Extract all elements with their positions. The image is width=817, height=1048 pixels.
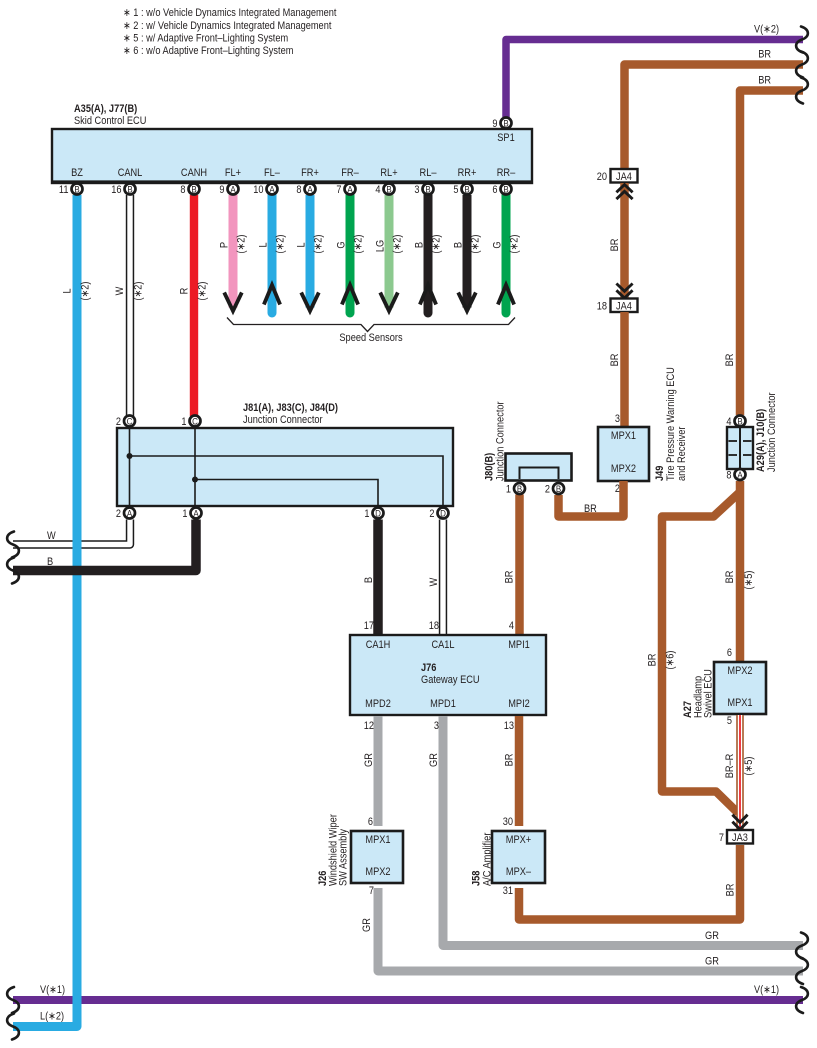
A/C amplifier J58 title [471,832,494,886]
svg-text:B: B [737,416,742,427]
ECU U1 Skid Control ECU body [52,129,532,183]
svg-text:7: 7 [336,184,341,196]
svg-text:4: 4 [375,184,380,196]
wire BR(*5) brown from A29 pin 8A to A27 pin 6 [724,481,755,661]
break symbol left L(*2) [7,1014,19,1040]
svg-text:GR: GR [428,753,440,767]
svg-text:A: A [347,184,353,195]
svg-text:C: C [192,416,198,427]
break symbol left B [7,558,19,584]
wire BR brown from J49 pin 2 to J80 pin 2B [559,481,624,517]
svg-text:5: 5 [727,715,732,727]
wire FL- L(*2) blue to speed sensor [258,195,287,313]
svg-text:(∗2): (∗2) [431,235,443,254]
svg-text:18: 18 [597,301,607,313]
pin 2 D of J81 [429,508,448,521]
svg-text:J76: J76 [421,662,436,674]
wire RL+ LG(*2) light green to speed sensor [375,195,404,311]
pin 9 B SP1 of ECU [492,118,511,131]
headlamp swivel ECU A27 body [714,662,766,714]
svg-text:W: W [47,530,56,542]
svg-text:30: 30 [503,816,513,828]
J81 junction dot node 1 [192,477,198,483]
windshield wiper SW assembly J26 body [351,831,403,883]
svg-text:BR: BR [504,571,516,584]
pin 4 B of A29 [726,416,745,429]
svg-text:4: 4 [509,620,514,632]
break symbol left V(*1) [7,987,19,1013]
svg-text:MPX1: MPX1 [611,430,636,442]
wire BZ L(*2) blue main from pin 11B to bottom-left break [13,195,92,1027]
wire GR gray from J76 MPD1 to right break [428,716,803,946]
svg-text:BR: BR [609,354,621,367]
svg-text:GR: GR [705,930,719,942]
break symbol right V(*1) [796,987,808,1013]
svg-text:MPX1: MPX1 [365,834,390,846]
svg-text:A: A [737,470,743,481]
svg-text:B: B [74,184,79,195]
svg-text:BR: BR [609,239,621,252]
svg-text:7: 7 [369,885,374,897]
svg-text:L: L [62,288,74,293]
J76 labels [365,639,530,710]
svg-text:BR: BR [758,49,771,61]
junction connector J80(B) title [484,401,507,481]
svg-text:(∗6): (∗6) [665,651,677,670]
svg-text:5: 5 [453,184,458,196]
svg-text:FL–: FL– [264,167,281,179]
break symbol right BR lower [796,78,808,104]
svg-text:L(∗2): L(∗2) [40,1011,64,1023]
svg-text:2: 2 [545,484,550,496]
svg-text:7: 7 [719,832,724,844]
svg-text:L: L [258,242,270,247]
svg-text:D: D [375,508,381,519]
junction connector J81(A), J83(C), J84(D) title [243,402,338,426]
svg-text:RL–: RL– [420,167,438,179]
wire GR gray from J26 pin 7 to right break [361,888,803,971]
gateway ECU J76 body [350,635,546,715]
svg-text:(∗5): (∗5) [743,571,755,590]
svg-text:8: 8 [180,184,185,196]
svg-text:LG: LG [375,240,387,252]
wire FR+ L(*2) blue to speed sensor [296,195,325,311]
break symbol right GR lower [796,958,808,984]
svg-text:BR: BR [584,503,597,515]
connector JA3 pin 7 [719,830,753,844]
svg-text:(∗2): (∗2) [470,235,482,254]
svg-text:W: W [428,577,440,586]
break symbol right BR upper [796,52,808,78]
svg-text:RR–: RR– [497,167,516,179]
wire CANL W(*2) white from pin 16B to J81 pin 2C [114,195,145,416]
svg-text:2: 2 [429,508,434,520]
svg-text:B: B [191,184,196,195]
wire BR brown from J76 MPI2 to J58 pin 30 [504,716,520,826]
pin 11 B of ECU [59,184,83,197]
pin 7 A of ECU [336,184,355,197]
svg-text:L: L [296,242,308,247]
svg-text:CANH: CANH [181,167,207,179]
tire pressure warning ECU J49 body [598,427,649,481]
windshield wiper SW assembly J26 title [317,814,350,886]
wire RL- B(*2) black to speed sensor [414,195,443,313]
svg-text:MPX2: MPX2 [727,665,752,677]
svg-text:BR: BR [724,571,736,584]
wire BR brown from right break to A29 pin 4B [724,75,803,416]
svg-text:MPX2: MPX2 [611,463,636,475]
pin 1 C of J81 [181,416,200,429]
svg-text:BR: BR [758,75,771,87]
svg-text:B: B [517,484,522,495]
J81 internal bus 2C-2A-2D [130,428,444,506]
pin 8 B of ECU [180,184,199,197]
wire CANH R(*2) red from pin 8B to J81 pin 1C [179,195,209,416]
svg-text:JA3: JA3 [732,832,748,844]
svg-text:J81(A), J83(C), J84(D): J81(A), J83(C), J84(D) [243,402,338,414]
J76 pin numbers 17 18 4 [364,620,514,632]
svg-text:31: 31 [503,885,513,897]
svg-text:BR: BR [724,354,736,367]
svg-text:A: A [230,184,236,195]
svg-text:B: B [464,184,469,195]
wire GR gray from J76 MPD2 to J26 pin 6 [363,716,378,826]
svg-text:W: W [114,286,126,295]
break symbol right V(*2) [796,27,808,53]
svg-text:MPD2: MPD2 [365,698,391,710]
wire RR+ B(*2) black to speed sensor [453,195,482,311]
svg-text:MPX2: MPX2 [365,866,390,878]
svg-text:11: 11 [59,184,69,196]
svg-text:6: 6 [492,184,497,196]
svg-text:9: 9 [219,184,224,196]
svg-text:RL+: RL+ [380,167,397,179]
wire BR brown from right break to JA4 pin 20 [625,49,804,170]
break symbol left W [7,532,19,558]
svg-text:(∗5): (∗5) [743,757,755,776]
svg-text:3: 3 [414,184,419,196]
pin 8 A of ECU [296,184,315,197]
svg-text:A: A [269,184,275,195]
svg-text:MPX+: MPX+ [506,834,531,846]
pin 1 B of J80 [506,483,525,496]
svg-text:CANL: CANL [118,167,143,179]
junction connector A29(A), J10(B) body [727,427,753,469]
svg-text:(∗2): (∗2) [236,235,248,254]
svg-text:9: 9 [492,118,497,130]
svg-text:RR+: RR+ [458,167,477,179]
svg-text:Gateway ECU: Gateway ECU [421,674,480,686]
pin 8 A of A29 [726,469,745,482]
svg-text:Junction Connector: Junction Connector [766,392,778,472]
A/C amplifier J58 body [492,831,545,883]
svg-text:B: B [503,118,508,129]
svg-text:BR–R: BR–R [724,754,736,779]
svg-text:A: A [307,184,313,195]
wire V(*1) purple bottom horizontal [13,984,803,1000]
svg-text:SP1: SP1 [497,132,515,144]
svg-text:17: 17 [364,620,374,632]
connector JA4 pin 18 [597,299,638,313]
svg-text:BR: BR [504,754,516,767]
svg-text:FR+: FR+ [301,167,319,179]
svg-text:B: B [386,184,391,195]
svg-text:A: A [127,508,133,519]
ECU pin name labels BZ CANL CANH FL+ FL- FR+ FR- RL+ RL- RR+ RR- SP1 [71,132,516,179]
pin 9 A of ECU [219,184,238,197]
svg-text:B: B [127,184,132,195]
wire BR brown from J58 pin 31 to JA3 pin 7 [519,845,740,920]
pin 2 C of J81 [116,416,135,429]
arrow double chevron up into JA4 20 [616,185,632,200]
svg-text:B: B [556,484,561,495]
J81 junction dot node 2 [127,453,133,459]
svg-text:6: 6 [727,647,732,659]
svg-text:18: 18 [429,620,439,632]
break symbol right GR upper [796,933,808,959]
svg-text:Speed Sensors: Speed Sensors [339,332,403,344]
svg-text:G: G [492,241,504,248]
svg-text:∗ 5 : w/ Adaptive Front–Lighti: ∗ 5 : w/ Adaptive Front–Lighting System [123,33,288,45]
wire FR- G(*2) green to speed sensor [336,195,365,313]
svg-text:6: 6 [368,816,373,828]
pin 3 B of ECU [414,184,433,197]
svg-text:(∗2): (∗2) [133,282,145,301]
wire BR brown from JA4 18 to J49 MPX1 pin 3 [609,312,625,426]
svg-text:MPD1: MPD1 [430,698,456,710]
ECU U1 title A35(A), J77(B) Skid Control ECU [74,103,146,127]
wire BR brown between JA4 connectors [609,183,625,298]
svg-text:B: B [414,242,426,248]
svg-text:(∗2): (∗2) [275,235,287,254]
svg-text:B: B [425,184,430,195]
svg-text:B: B [453,242,465,248]
brace Speed Sensors [227,318,515,345]
svg-text:1: 1 [506,484,511,496]
pin 5 B of ECU [453,184,472,197]
wire W white from J81 pin 2D to J76 CA1L [428,520,443,635]
wire B black from J81 pin 1A to left break [13,520,196,571]
arrow double chevron down into JA3 [732,815,747,830]
svg-text:C: C [127,416,133,427]
svg-text:2: 2 [615,483,620,495]
pin 4 B of ECU [375,184,394,197]
pin 1 D of J81 [364,508,383,521]
wire BR-R(*5) striped from A27 pin 5 to JA3 pin 7 [724,715,755,830]
svg-text:20: 20 [597,171,607,183]
wire BR(*6) brown branch from A29 pin 8A to JA3 pin 7 [647,492,741,813]
svg-text:12: 12 [364,720,374,732]
svg-text:∗ 6 : w/o Adaptive Front–Light: ∗ 6 : w/o Adaptive Front–Lighting System [123,45,293,57]
wire RR- G(*2) green to speed sensor [492,195,521,313]
arrow double chevron down into JA4 18 [616,284,632,299]
svg-text:A35(A), J77(B): A35(A), J77(B) [74,103,137,115]
svg-text:G: G [336,241,348,248]
wire B black from J81 pin 1D to J76 CA1H [363,520,378,635]
svg-text:MPX–: MPX– [506,866,532,878]
svg-text:B: B [363,577,375,583]
J76 pin numbers 12 3 13 [364,720,514,732]
svg-text:MPI2: MPI2 [508,698,530,710]
svg-text:(∗2): (∗2) [313,235,325,254]
svg-text:4: 4 [726,416,731,428]
notes legend [123,7,337,57]
svg-text:V(∗2): V(∗2) [754,24,779,36]
svg-text:(∗2): (∗2) [509,235,521,254]
svg-text:B: B [47,556,53,568]
J81 internal bus 1C-1A-1D [195,428,378,506]
svg-text:BR: BR [647,654,659,667]
wire FL+ P(*2) pink to speed sensor [219,195,248,311]
svg-text:10: 10 [253,184,263,196]
junction connector A29(A), J10(B) title [755,392,778,472]
svg-text:P: P [219,242,231,248]
svg-text:3: 3 [615,413,620,425]
svg-text:∗ 2 : w/ Vehicle Dynamics Inte: ∗ 2 : w/ Vehicle Dynamics Integrated Man… [123,20,331,32]
svg-text:1: 1 [182,508,187,520]
pin 10 A of ECU [253,184,277,197]
pin 16 B of ECU [111,184,135,197]
svg-text:SW Assembly: SW Assembly [338,829,350,886]
svg-text:16: 16 [111,184,121,196]
svg-text:MPX1: MPX1 [727,697,752,709]
svg-text:(∗2): (∗2) [353,235,365,254]
pin 6 B of ECU [492,184,511,197]
svg-text:2: 2 [116,416,121,428]
svg-text:1: 1 [364,508,369,520]
svg-text:CA1H: CA1H [366,639,391,651]
connector JA4 pin 20 [597,169,638,183]
junction connector J80(B) body [506,454,572,481]
svg-text:FR–: FR– [341,167,359,179]
svg-text:1: 1 [181,416,186,428]
svg-text:GR: GR [361,918,373,932]
svg-text:(∗2): (∗2) [392,235,404,254]
svg-text:8: 8 [726,470,731,482]
svg-text:FL+: FL+ [225,167,241,179]
svg-text:GR: GR [363,753,375,767]
svg-text:GR: GR [705,956,719,968]
svg-text:R: R [179,288,191,295]
svg-text:and Receiver: and Receiver [676,426,688,481]
wire V(*2) purple from right break to ECU pin 9B SP1 [506,24,803,118]
svg-text:∗ 1 : w/o Vehicle Dynamics Int: ∗ 1 : w/o Vehicle Dynamics Integrated Ma… [123,7,337,19]
pin 2 B of J80 [545,483,564,496]
svg-text:JA4: JA4 [616,301,632,313]
svg-text:8: 8 [296,184,301,196]
svg-text:V(∗1): V(∗1) [40,984,65,996]
svg-text:CA1L: CA1L [431,639,454,651]
pin 1 A of J81 [182,508,201,521]
headlamp swivel ECU A27 title [682,669,715,718]
svg-text:Skid Control ECU: Skid Control ECU [74,115,146,127]
svg-text:BR: BR [725,884,737,897]
svg-text:(∗2): (∗2) [80,282,92,301]
svg-text:Junction Connector: Junction Connector [243,414,323,426]
tire pressure warning ECU J49 title [654,367,688,481]
wire BR brown from J80 pin 1B to J76 MPI1 [504,495,520,635]
wire W white from J81 pin 2A to left break [13,520,130,545]
svg-text:2: 2 [116,508,121,520]
junction connector J81 body [117,428,453,506]
svg-text:(∗2): (∗2) [197,282,209,301]
svg-text:BZ: BZ [71,167,83,179]
svg-text:A: A [193,508,199,519]
svg-text:3: 3 [434,720,439,732]
svg-text:MPI1: MPI1 [508,639,530,651]
svg-text:B: B [503,184,508,195]
svg-text:V(∗1): V(∗1) [754,984,779,996]
svg-text:13: 13 [504,720,514,732]
pin 2 A of J81 [116,508,135,521]
svg-text:D: D [440,508,446,519]
svg-text:JA4: JA4 [616,171,632,183]
